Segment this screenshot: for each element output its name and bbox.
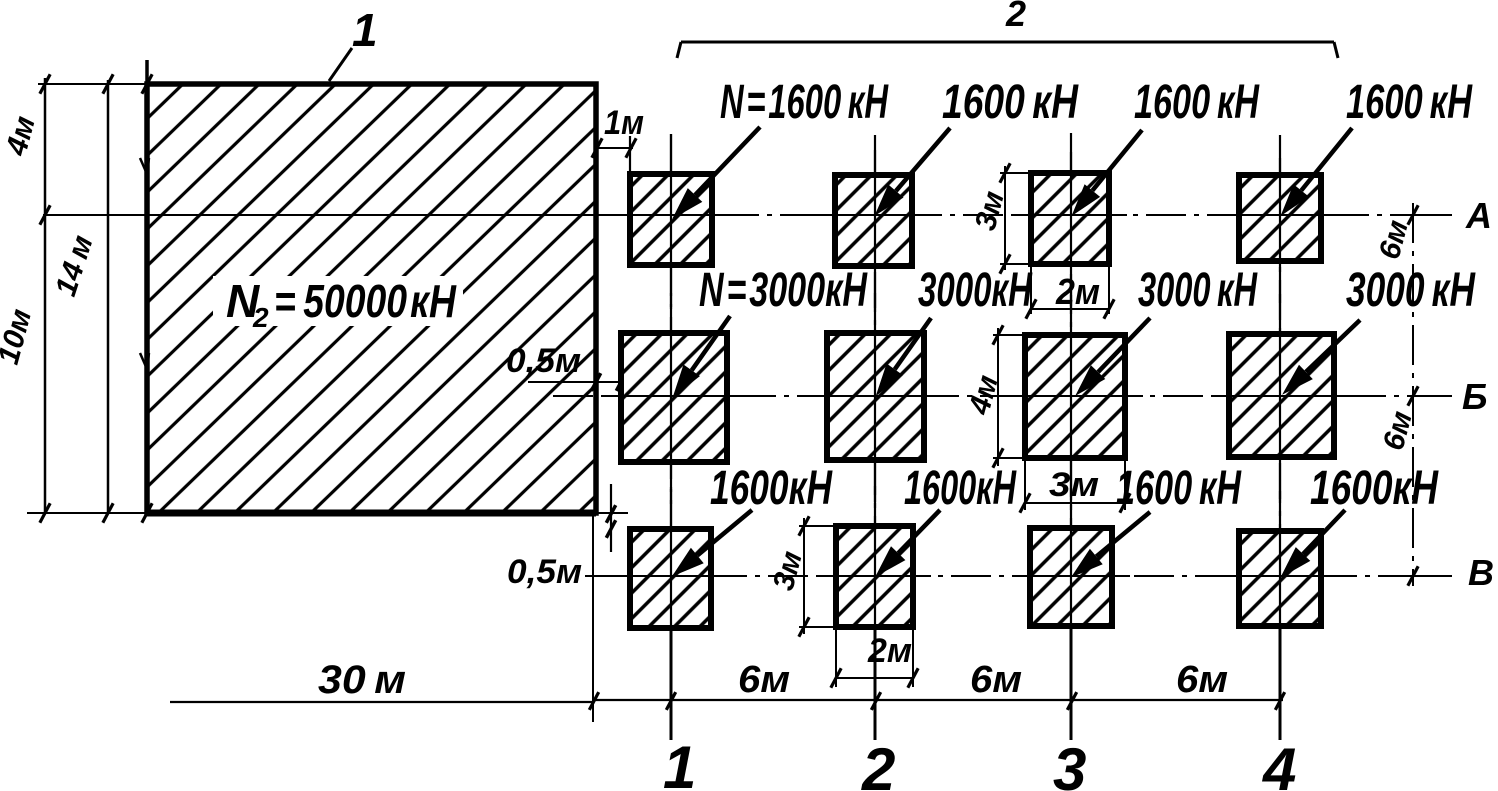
svg-text:1600кН: 1600кН [904, 462, 1017, 515]
svg-text:1600кН: 1600кН [1310, 462, 1439, 515]
svg-text:6м: 6м [738, 659, 790, 701]
svg-text:1м: 1м [604, 104, 644, 142]
svg-text:А: А [1465, 195, 1492, 236]
svg-text:2м: 2м [867, 632, 912, 670]
svg-text:2: 2 [1005, 0, 1026, 34]
svg-text:6м: 6м [1176, 659, 1228, 701]
svg-text:3000 кН: 3000 кН [1138, 264, 1258, 317]
svg-text:3000кН: 3000кН [918, 264, 1033, 317]
svg-text:1600 кН: 1600 кН [942, 76, 1079, 129]
svg-text:В: В [1468, 552, 1494, 593]
svg-text:1: 1 [352, 4, 378, 56]
svg-text:4: 4 [1262, 736, 1296, 791]
svg-text:1600 кН: 1600 кН [1134, 76, 1260, 129]
svg-text:= 50000 кН: = 50000 кН [274, 275, 457, 327]
svg-text:1600кН: 1600кН [710, 462, 833, 515]
svg-text:1600 кН: 1600 кН [1116, 462, 1242, 515]
svg-text:N = 3000кН: N = 3000кН [699, 264, 868, 317]
svg-text:6м: 6м [970, 659, 1022, 701]
svg-text:0,5м: 0,5м [506, 342, 581, 380]
svg-text:2: 2 [861, 736, 895, 791]
svg-text:2м: 2м [1055, 271, 1100, 312]
svg-text:Б: Б [1462, 376, 1488, 417]
svg-text:3000 кН: 3000 кН [1346, 264, 1476, 317]
svg-text:1: 1 [663, 734, 696, 791]
svg-text:3м: 3м [1049, 466, 1099, 504]
svg-text:0,5м: 0,5м [507, 553, 582, 591]
svg-text:1600 кН: 1600 кН [1346, 76, 1473, 129]
svg-text:N = 1600 кН: N = 1600 кН [720, 76, 889, 129]
svg-text:3: 3 [1053, 736, 1086, 791]
svg-text:30 м: 30 м [318, 658, 406, 702]
svg-text:2: 2 [252, 302, 269, 333]
